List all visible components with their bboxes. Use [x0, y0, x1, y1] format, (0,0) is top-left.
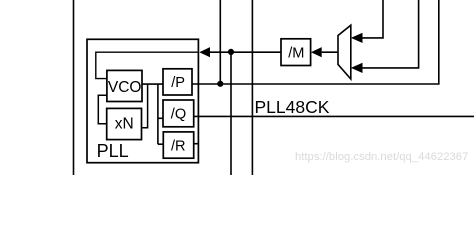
svg-text:/R: /R [171, 138, 186, 154]
svg-text:PLL: PLL [97, 141, 129, 161]
svg-text:/M: /M [288, 45, 304, 61]
svg-text:https://blog.csdn.net/qq_44622: https://blog.csdn.net/qq_44622367 [295, 151, 468, 163]
svg-text:PLL48CK: PLL48CK [255, 97, 330, 117]
svg-text:/P: /P [171, 75, 185, 91]
svg-text:xN: xN [115, 116, 134, 133]
svg-text:VCO: VCO [108, 79, 142, 96]
svg-text:/Q: /Q [171, 107, 186, 123]
